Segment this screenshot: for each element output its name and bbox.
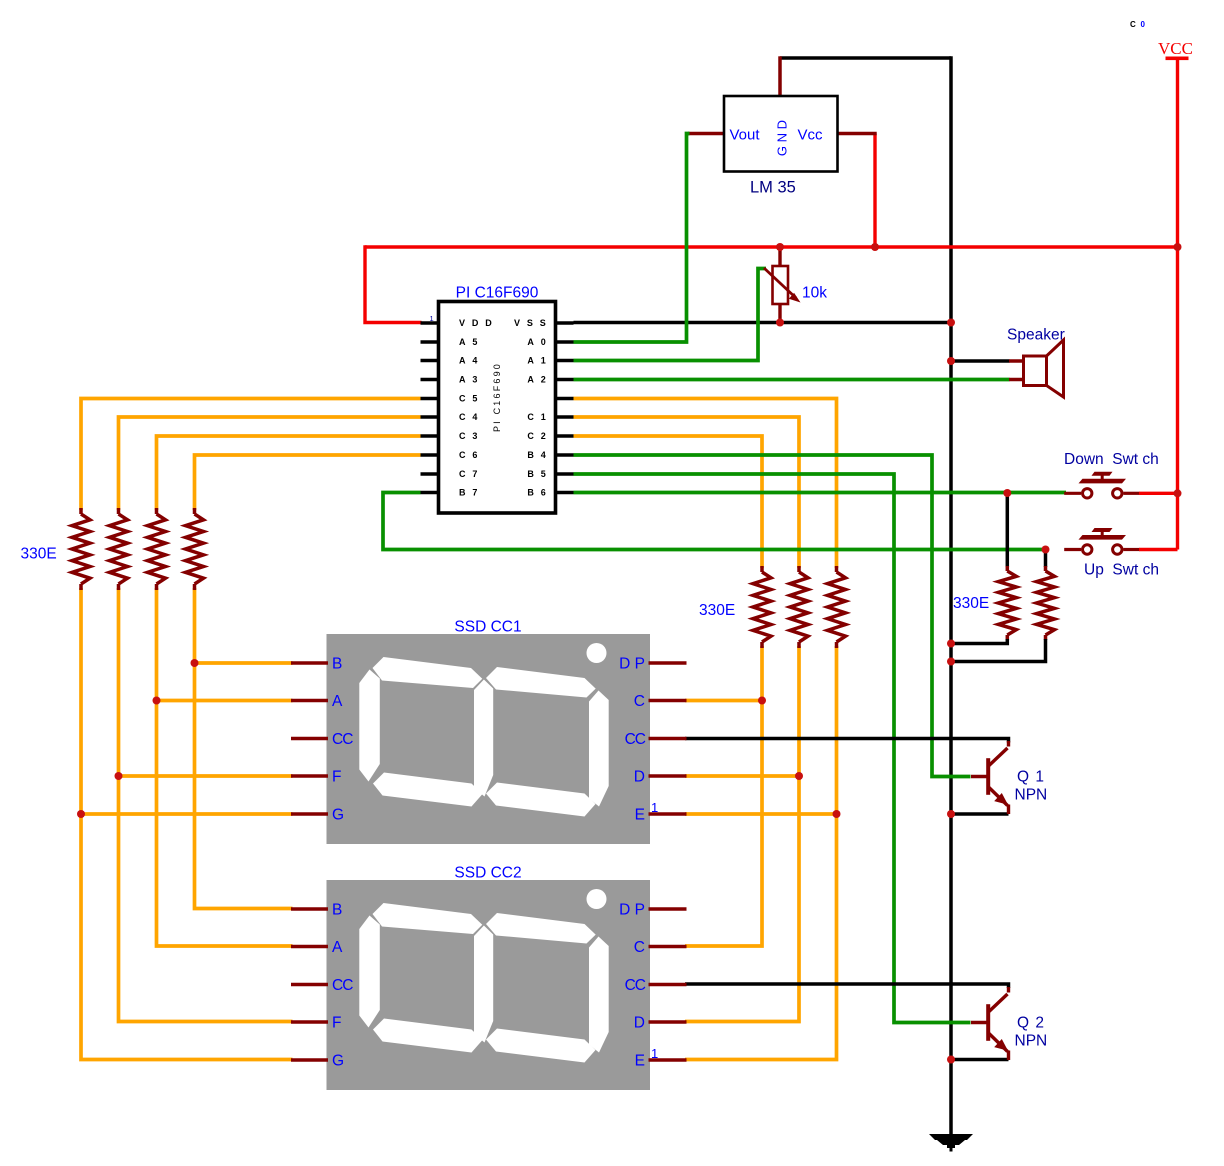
svg-text:B 6: B 6: [527, 488, 548, 498]
switch SW2 Up Switch: [1064, 528, 1177, 579]
wire resistor column 4 to displays (orange): [195, 588, 293, 909]
resistor 330E left 2: [110, 508, 128, 590]
svg-text:Speaker: Speaker: [1007, 327, 1065, 344]
label C0 annotation: [1130, 20, 1146, 29]
svg-text:VCC: VCC: [1158, 39, 1193, 58]
svg-text:C 1: C 1: [527, 412, 548, 422]
svg-text:A 5: A 5: [459, 337, 480, 347]
resistor 330E left 3: [148, 508, 166, 590]
svg-text:SSD CC1: SSD CC1: [454, 619, 521, 636]
wire resistor column 3 to displays (orange): [157, 588, 293, 946]
svg-text:B: B: [332, 656, 342, 673]
svg-text:B 7: B 7: [459, 488, 480, 498]
svg-text:A 1: A 1: [527, 356, 548, 366]
resistor 330E right 1: [998, 566, 1016, 640]
svg-text:G: G: [332, 807, 344, 824]
svg-text:10k: 10k: [802, 285, 827, 302]
svg-text:C 6: C 6: [459, 450, 480, 460]
display DS2 SSD CC2: [291, 865, 687, 1091]
svg-text:SSD CC2: SSD CC2: [454, 865, 521, 882]
svg-text:G N D: G N D: [775, 120, 790, 156]
wire Q2 emitter to ground bus (black): [951, 1058, 1009, 1062]
wire Q1 emitter to ground bus (black): [951, 812, 1009, 816]
svg-text:D P: D P: [619, 902, 645, 919]
resistor 330E left 1: [72, 508, 90, 590]
op-amp U1 PIC16F690 microcontroller: [421, 285, 574, 514]
label 330E left: [21, 546, 57, 563]
svg-text:CC: CC: [332, 977, 353, 994]
svg-text:0: 0: [1141, 20, 1146, 29]
wire speaker bottom stub: [1009, 378, 1024, 382]
svg-text:C 2: C 2: [527, 431, 548, 441]
resistor 330E left 4: [186, 508, 204, 590]
switch SW1 Down Switch: [1064, 451, 1178, 498]
svg-text:A 3: A 3: [459, 375, 480, 385]
wire PIC B5 to Q2 base (green): [574, 474, 971, 1023]
svg-text:PI C16F690: PI C16F690: [492, 362, 502, 432]
resistor 330E right 2: [1037, 566, 1055, 640]
wire PIC left pin to resistor column 4 (orange): [195, 455, 421, 510]
resistor 330E middle 3: [753, 566, 771, 648]
svg-text:330E: 330E: [21, 546, 57, 563]
wire PIC B4 to Q1 base (green): [574, 455, 971, 777]
wire VCC rail to PIC VDD: [365, 245, 422, 322]
svg-text:A: A: [332, 693, 343, 710]
svg-text:PI C16F690: PI C16F690: [456, 285, 539, 302]
svg-text:Vcc: Vcc: [798, 127, 824, 144]
wire VCC vertical from VCC symbol: [1176, 59, 1179, 550]
svg-text:G: G: [332, 1053, 344, 1070]
svg-text:B 5: B 5: [527, 469, 548, 479]
svg-text:E: E: [635, 807, 645, 824]
svg-text:Q 2: Q 2: [1017, 1015, 1045, 1032]
svg-text:A: A: [332, 939, 343, 956]
svg-text:D P: D P: [619, 656, 645, 673]
wire PIC right pin to resistor column 6 (orange): [574, 417, 800, 568]
wire resistor column 2 to displays (orange): [119, 588, 293, 1022]
svg-text:A 4: A 4: [459, 356, 480, 366]
svg-text:330E: 330E: [953, 595, 989, 612]
svg-text:NPN: NPN: [1015, 787, 1048, 804]
svg-text:NPN: NPN: [1015, 1033, 1048, 1050]
svg-text:C 5: C 5: [459, 394, 480, 404]
svg-text:CC: CC: [625, 731, 646, 748]
svg-text:C 7: C 7: [459, 469, 480, 479]
wire PIC right pin to resistor column 5 (orange): [574, 399, 837, 569]
power symbol VCC: [1158, 39, 1193, 60]
transistor Q2 NPN: [971, 987, 1047, 1060]
wire PIC B7 to Up switch (green): [383, 493, 1046, 550]
svg-text:B: B: [332, 902, 342, 919]
transistor Q1 NPN: [971, 741, 1047, 814]
potentiometer RV1 10k: [764, 247, 827, 323]
wire LM35 Vout pin stub: [688, 132, 724, 136]
svg-text:CC: CC: [332, 731, 353, 748]
svg-text:Down Swt ch: Down Swt ch: [1064, 451, 1159, 468]
wire speaker top stub: [1009, 359, 1024, 363]
svg-text:1: 1: [430, 314, 434, 323]
wire speaker top to ground bus: [951, 359, 1010, 363]
svg-text:C 3: C 3: [459, 431, 480, 441]
svg-text:B 4: B 4: [527, 450, 548, 460]
wire PIC B6 to Down switch (green): [574, 491, 1067, 495]
svg-text:CC: CC: [625, 977, 646, 994]
label 330E middle: [699, 602, 735, 619]
wire resistor column 1 to displays (orange): [81, 588, 293, 1060]
wire pot wiper to PIC A1 (green): [574, 269, 767, 361]
display DS1 SSD CC1: [291, 619, 687, 845]
svg-text:C: C: [1130, 20, 1136, 29]
wire Up switch node to resistor (black): [1044, 550, 1048, 568]
wire LM35 Vout to PIC A0 (green): [574, 134, 690, 343]
svg-text:Q 1: Q 1: [1017, 769, 1045, 786]
wire PIC left pin to resistor column 3 (orange): [157, 436, 421, 510]
wire VCC rail horizontal: [365, 245, 1178, 248]
svg-text:Vout: Vout: [730, 127, 761, 144]
svg-text:1: 1: [651, 1046, 658, 1061]
sensor U2 LM35: [724, 96, 838, 197]
resistor 330E middle 2: [790, 566, 808, 648]
wire resistor to ground bus 2 (black): [951, 639, 1046, 662]
svg-text:D: D: [634, 1015, 645, 1032]
svg-text:V D D: V D D: [459, 318, 494, 328]
wire resistor column 7 to display pins (orange): [685, 646, 837, 1060]
wire PIC VSS to ground bus: [574, 321, 952, 325]
wire LM35 Vcc to rail: [873, 134, 876, 248]
speaker LS1: [1007, 327, 1065, 398]
svg-text:Up Swt ch: Up Swt ch: [1084, 562, 1159, 579]
resistor 330E middle 1: [828, 566, 846, 648]
svg-text:LM 35: LM 35: [750, 179, 796, 197]
wire resistor to ground bus 1 (black): [951, 639, 1007, 644]
svg-text:D: D: [634, 769, 645, 786]
wire PIC A2 to speaker (green): [574, 378, 1010, 382]
wire LM35 GND pin stub: [778, 56, 782, 96]
wire PIC left pin to resistor column 1 (orange): [81, 399, 421, 511]
svg-text:C: C: [634, 693, 645, 710]
wire resistor column 6 to display pins (orange): [685, 646, 799, 1022]
svg-text:330E: 330E: [699, 602, 735, 619]
wire SSD CC2 common cathode to Q2 collector (black): [685, 984, 1009, 988]
wire GND net (LM35 GND to ground bus): [780, 56, 951, 1134]
wire resistor column 5 to display pins (orange): [685, 646, 762, 946]
svg-text:A 0: A 0: [527, 337, 548, 347]
wire SSD CC1 common cathode to Q1 collector (black): [685, 739, 1009, 743]
svg-text:F: F: [332, 769, 341, 786]
svg-text:C: C: [634, 939, 645, 956]
wire PIC right pin to resistor column 7 (orange): [574, 436, 763, 568]
svg-text:A 2: A 2: [527, 375, 548, 385]
wire Down switch node to resistor (black): [1006, 493, 1010, 567]
wire PIC left pin to resistor column 2 (orange): [119, 417, 421, 510]
svg-text:F: F: [332, 1015, 341, 1032]
svg-text:1: 1: [651, 800, 658, 815]
ground: [929, 1134, 973, 1152]
label 330E right: [953, 595, 989, 612]
svg-text:V S S: V S S: [514, 318, 548, 328]
svg-text:E: E: [635, 1053, 645, 1070]
svg-text:C 4: C 4: [459, 412, 480, 422]
wire LM35 Vcc pin stub: [836, 132, 877, 136]
